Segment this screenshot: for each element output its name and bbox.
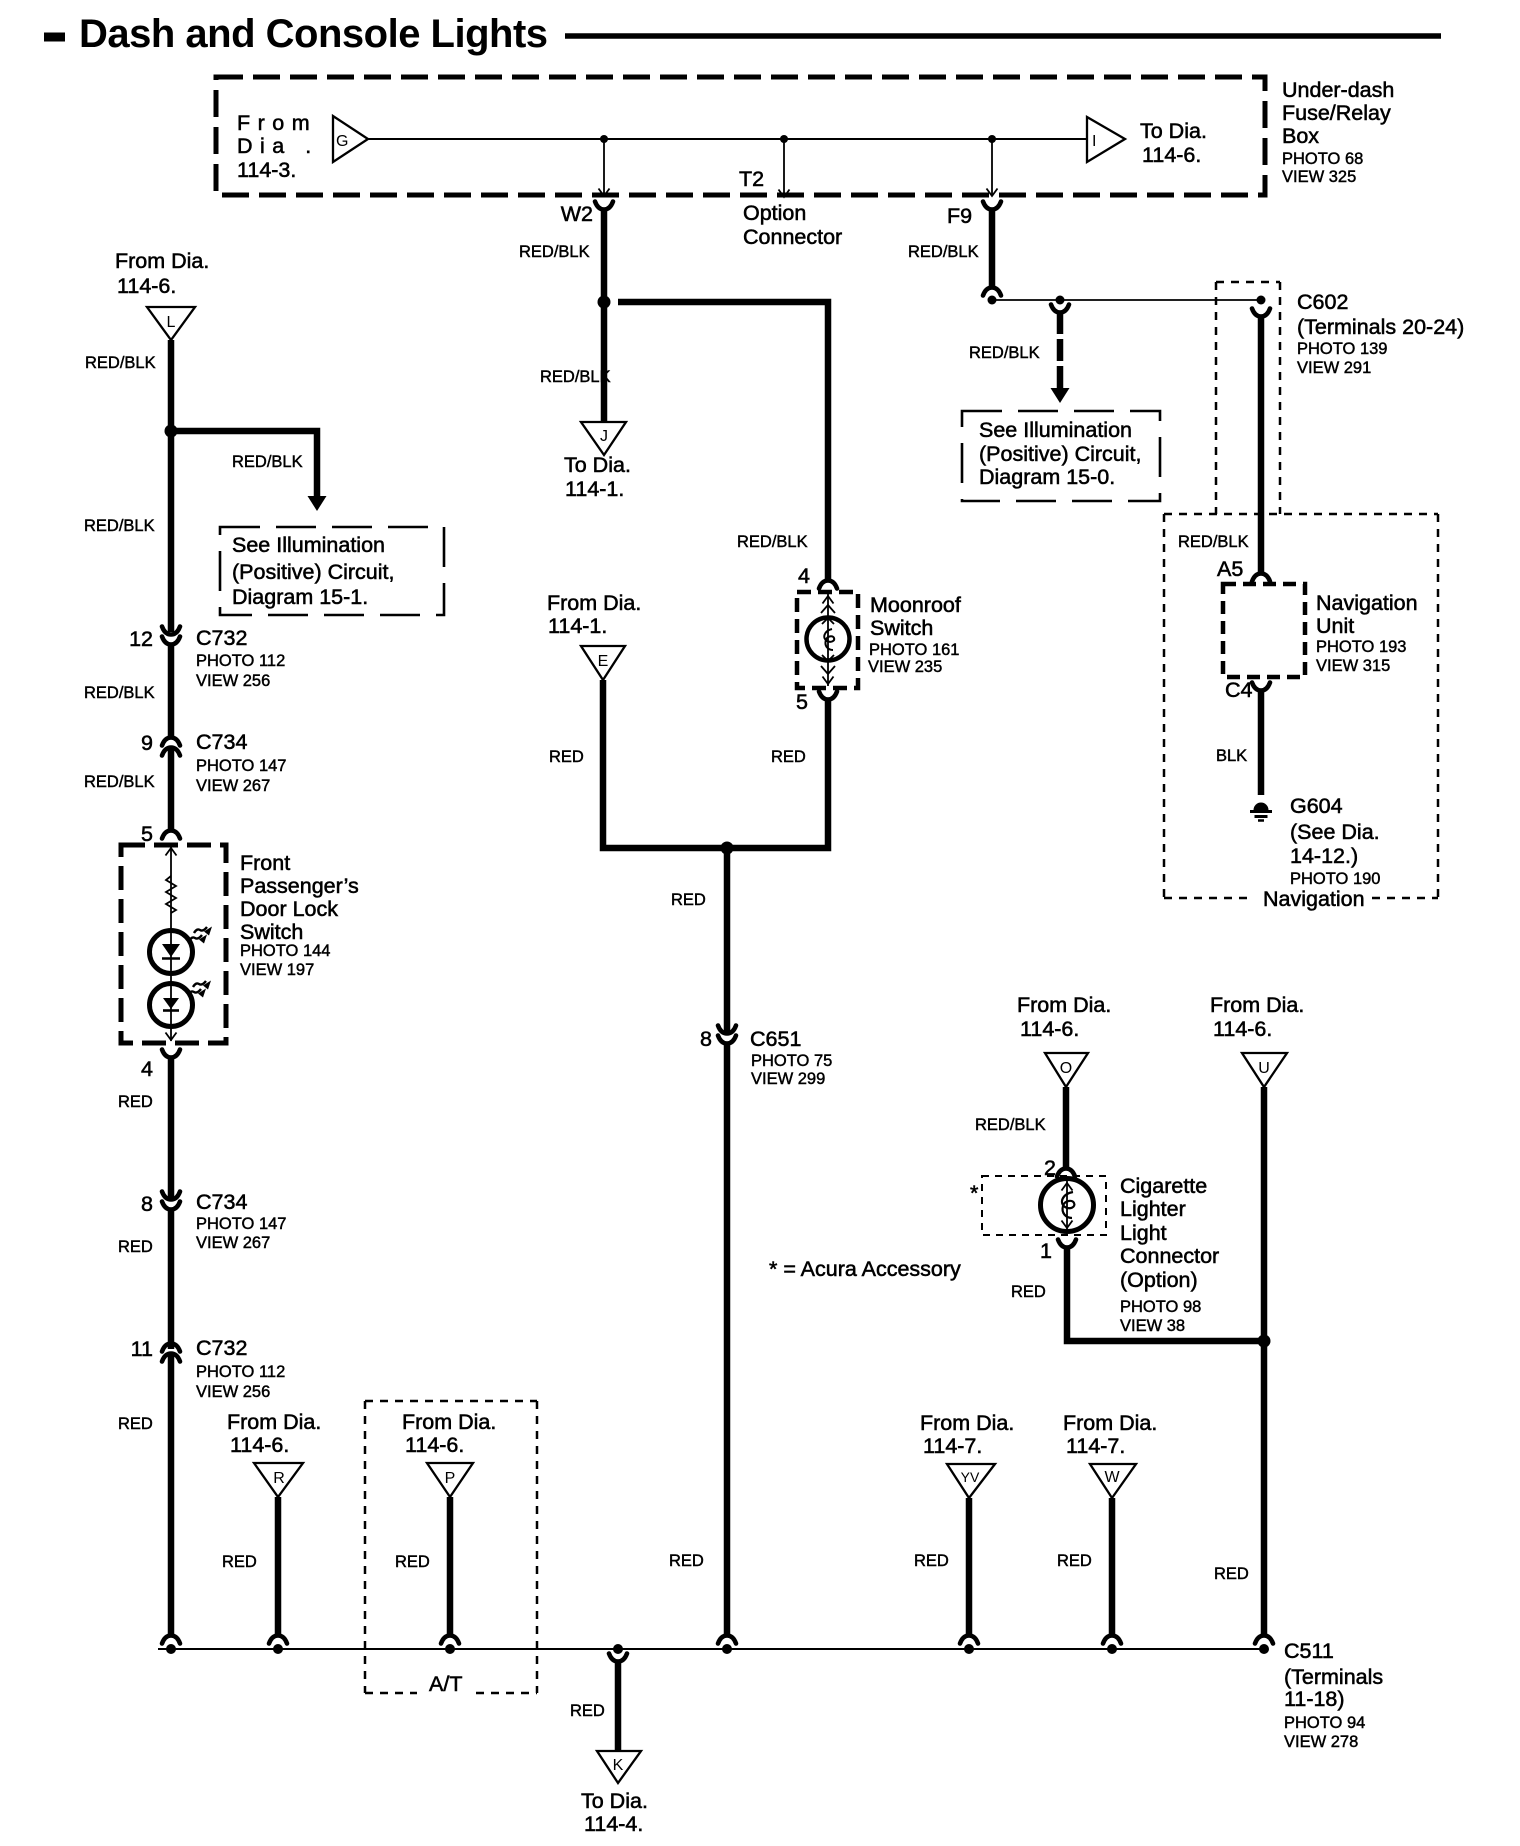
svg-text:Front: Front bbox=[240, 851, 290, 875]
wire: thin arrow down to F9 bbox=[987, 139, 998, 196]
A5 horn at navigation unit bbox=[1252, 574, 1270, 582]
svg-text:114-6.: 114-6. bbox=[1142, 143, 1201, 167]
svg-text:Lighter: Lighter bbox=[1120, 1197, 1186, 1221]
svg-text:RED: RED bbox=[1011, 1283, 1046, 1301]
node on bus bbox=[445, 1644, 455, 1654]
svg-text:Fuse/Relay: Fuse/Relay bbox=[1282, 101, 1391, 125]
connector arrow L bbox=[147, 307, 195, 340]
svg-text:From Dia.: From Dia. bbox=[547, 591, 641, 615]
wire O down to lighter bbox=[1063, 1087, 1070, 1169]
wire left column to C732 bbox=[168, 431, 175, 632]
svg-text:114-1.: 114-1. bbox=[565, 477, 624, 501]
wire W down to bus bbox=[1109, 1498, 1116, 1636]
connector arrow E bbox=[581, 646, 625, 680]
svg-text:Under-dash: Under-dash bbox=[1282, 78, 1394, 102]
front passenger's door lock switch box (dashed) bbox=[121, 845, 226, 1043]
wire F9 down bbox=[989, 209, 996, 288]
svg-text:PHOTO 161: PHOTO 161 bbox=[869, 641, 959, 659]
svg-text:5: 5 bbox=[796, 690, 808, 714]
label G604 (See Dia. 14-12.) bbox=[1290, 794, 1380, 888]
svg-text:1: 1 bbox=[1040, 1239, 1052, 1263]
svg-text:4: 4 bbox=[141, 1057, 153, 1081]
wire K down bbox=[615, 1661, 622, 1751]
heavy dashed arrow down bbox=[1057, 312, 1064, 388]
label To Dia. 114-4. bbox=[581, 1789, 648, 1836]
wire: thin arrow down to W2 bbox=[599, 139, 610, 196]
svg-text:RED/BLK: RED/BLK bbox=[232, 453, 303, 471]
wire: thin arrow down to T2 option connector bbox=[779, 139, 790, 197]
svg-text:Dia .: Dia . bbox=[237, 134, 319, 158]
svg-text:Option: Option bbox=[743, 201, 806, 225]
svg-text:VIEW 197: VIEW 197 bbox=[240, 961, 314, 979]
svg-text:RED: RED bbox=[771, 748, 806, 766]
svg-text:RED/BLK: RED/BLK bbox=[84, 684, 155, 702]
svg-text:(See Dia.: (See Dia. bbox=[1290, 820, 1380, 844]
K wire horn below bus bbox=[609, 1654, 627, 1662]
wire to C734 bbox=[168, 645, 175, 738]
wire C602 down to navigation unit bbox=[1258, 316, 1265, 574]
node center junction bbox=[721, 842, 734, 855]
connector C734 pin 9 bbox=[141, 730, 286, 795]
svg-text:114-6.: 114-6. bbox=[117, 274, 176, 298]
label From Dia. 114-1. (E) bbox=[547, 591, 641, 638]
wire down to C734 pin 8 bbox=[168, 1057, 175, 1198]
svg-text:RED: RED bbox=[222, 1553, 257, 1571]
svg-text:K: K bbox=[613, 1757, 624, 1774]
svg-text:YV: YV bbox=[961, 1469, 980, 1485]
connector arrow YV bbox=[947, 1464, 995, 1498]
wire center down to C651 bbox=[724, 848, 731, 1032]
svg-text:(Positive) Circuit,: (Positive) Circuit, bbox=[979, 442, 1141, 466]
svg-text:C732: C732 bbox=[196, 626, 247, 650]
F9 wire horn top bbox=[983, 202, 1001, 210]
node at C602 top bbox=[1257, 296, 1266, 305]
svg-text:A5: A5 bbox=[1217, 557, 1243, 581]
svg-text:To Dia.: To Dia. bbox=[581, 1789, 648, 1813]
svg-text:W: W bbox=[1104, 1469, 1120, 1486]
connector arrow K bbox=[597, 1751, 641, 1783]
svg-text:RED: RED bbox=[395, 1553, 430, 1571]
svg-text:PHOTO 94: PHOTO 94 bbox=[1284, 1714, 1365, 1732]
svg-text:RED: RED bbox=[118, 1093, 153, 1111]
connector arrow R bbox=[254, 1463, 303, 1497]
node at W2 drop bbox=[600, 135, 608, 143]
C4 horn bbox=[1252, 683, 1270, 691]
terminal 4 horn bbox=[141, 1050, 180, 1082]
svg-text:114-1.: 114-1. bbox=[548, 614, 607, 638]
see illumination 15-1 box (dashed) bbox=[220, 527, 444, 615]
label Navigation Unit bbox=[1316, 591, 1418, 675]
bus terminal horn (center wire) bbox=[718, 1636, 736, 1644]
svg-text:PHOTO 112: PHOTO 112 bbox=[196, 1363, 285, 1381]
label From Dia. 114-6. (L) bbox=[115, 249, 209, 298]
svg-text:See Illumination: See Illumination bbox=[232, 533, 385, 557]
terminal 2 horn bbox=[1044, 1156, 1075, 1180]
svg-text:114-6.: 114-6. bbox=[1020, 1017, 1079, 1041]
node on bus bbox=[166, 1644, 176, 1654]
svg-text:Connector: Connector bbox=[1120, 1244, 1219, 1268]
svg-text:PHOTO 144: PHOTO 144 bbox=[240, 942, 330, 960]
navigation outer dashed box bbox=[1164, 514, 1438, 898]
svg-text:W2: W2 bbox=[561, 202, 593, 226]
horn for dashed arrow bbox=[1051, 305, 1069, 313]
moonroof switch box (dashed) bbox=[797, 592, 858, 688]
svg-text:114-7.: 114-7. bbox=[923, 1434, 982, 1458]
svg-text:VIEW 299: VIEW 299 bbox=[751, 1070, 825, 1088]
svg-text:PHOTO 112: PHOTO 112 bbox=[196, 652, 285, 670]
svg-text:From Dia.: From Dia. bbox=[1210, 993, 1304, 1017]
svg-text:9: 9 bbox=[141, 731, 153, 755]
node on bus bbox=[964, 1644, 974, 1654]
svg-text:PHOTO 139: PHOTO 139 bbox=[1297, 340, 1387, 358]
connector C732 pin 11 bbox=[131, 1336, 286, 1401]
svg-text:Moonroof: Moonroof bbox=[870, 593, 961, 617]
connector arrow U bbox=[1242, 1053, 1287, 1087]
F9 wire horn bottom bbox=[983, 288, 1001, 296]
node on bus bbox=[1259, 1644, 1269, 1654]
svg-text:* = Acura Accessory: * = Acura Accessory bbox=[769, 1257, 961, 1281]
bus terminal horn (U wire) bbox=[1255, 1636, 1273, 1644]
svg-text:F9: F9 bbox=[947, 204, 972, 228]
svg-text:RED/BLK: RED/BLK bbox=[84, 773, 155, 791]
node W2 junction bbox=[598, 296, 611, 309]
bottom bus wire bbox=[158, 1648, 1264, 1650]
cigarette lighter dashed box bbox=[982, 1176, 1106, 1235]
node junction on left column bbox=[165, 425, 178, 438]
svg-text:RED: RED bbox=[1214, 1565, 1249, 1583]
svg-text:BLK: BLK bbox=[1216, 747, 1247, 765]
label Under-dash Fuse/Relay Box bbox=[1282, 78, 1394, 186]
connector arrow W bbox=[1090, 1464, 1136, 1498]
svg-text:*: * bbox=[970, 1181, 979, 1205]
wire W2 down bbox=[601, 209, 608, 305]
node on bus bbox=[1107, 1644, 1117, 1654]
title: Dash and Console Lights bbox=[44, 33, 65, 42]
svg-text:I: I bbox=[1092, 133, 1096, 150]
solid arrowhead bbox=[308, 496, 327, 511]
node at T2 drop bbox=[780, 135, 788, 143]
svg-text:8: 8 bbox=[141, 1192, 153, 1216]
moonroof terminal 4 horn bbox=[798, 564, 837, 589]
svg-text:C734: C734 bbox=[196, 730, 247, 754]
wire W2 junction down to J bbox=[601, 302, 608, 422]
wire YV down to bus bbox=[966, 1498, 973, 1636]
label Moonroof Switch bbox=[868, 593, 961, 676]
label From Dia. 114-6. (U) bbox=[1210, 993, 1304, 1041]
lighter bulb bbox=[1041, 1179, 1094, 1232]
svg-text:P: P bbox=[445, 1470, 456, 1487]
resistor (internal) bbox=[166, 876, 176, 913]
bus terminal horn (P wire) bbox=[441, 1636, 459, 1644]
under-dash fuse/relay box (dashed) bbox=[216, 77, 1265, 195]
svg-text:From: From bbox=[237, 111, 317, 135]
svg-text:C732: C732 bbox=[196, 1336, 247, 1360]
svg-text:Navigation: Navigation bbox=[1263, 887, 1365, 911]
wire P down to bus bbox=[447, 1497, 454, 1636]
wire E down to junction bbox=[603, 680, 727, 848]
svg-text:U: U bbox=[1258, 1060, 1270, 1077]
svg-text:A/T: A/T bbox=[429, 1672, 462, 1696]
svg-text:J: J bbox=[600, 428, 608, 445]
moonroof switch internals bbox=[807, 594, 850, 686]
svg-text:From Dia.: From Dia. bbox=[115, 249, 209, 273]
moonroof terminal 5 horn bbox=[796, 690, 837, 714]
LED 1 bbox=[150, 927, 213, 974]
svg-text:RED: RED bbox=[118, 1415, 153, 1433]
svg-text:RED: RED bbox=[914, 1552, 949, 1570]
svg-text:(Positive) Circuit,: (Positive) Circuit, bbox=[232, 560, 394, 584]
label Cigarette Lighter Light Connector (Option) bbox=[1120, 1174, 1219, 1335]
svg-text:PHOTO 75: PHOTO 75 bbox=[751, 1052, 832, 1070]
connector arrow I bbox=[1087, 117, 1125, 162]
svg-text:4: 4 bbox=[798, 564, 810, 588]
label To Dia. 114-6. bbox=[1140, 119, 1207, 167]
svg-text:8: 8 bbox=[700, 1027, 712, 1051]
svg-text:VIEW 235: VIEW 235 bbox=[868, 658, 942, 676]
svg-text:114-4.: 114-4. bbox=[584, 1812, 643, 1836]
svg-text:VIEW 325: VIEW 325 bbox=[1282, 168, 1356, 186]
W2 wire horn bbox=[595, 202, 613, 210]
svg-text:See Illumination: See Illumination bbox=[979, 418, 1132, 442]
see illumination 15-0 box (dashed) bbox=[962, 411, 1160, 501]
svg-text:5: 5 bbox=[141, 822, 153, 846]
svg-text:Door Lock: Door Lock bbox=[240, 897, 338, 921]
svg-text:C651: C651 bbox=[750, 1027, 801, 1051]
A/T dashed box bbox=[365, 1401, 537, 1693]
svg-text:11: 11 bbox=[131, 1337, 153, 1361]
svg-text:RED/BLK: RED/BLK bbox=[969, 344, 1040, 362]
svg-text:Navigation: Navigation bbox=[1316, 591, 1418, 615]
svg-text:C734: C734 bbox=[196, 1190, 247, 1214]
svg-text:(Terminals 20-24): (Terminals 20-24) bbox=[1297, 315, 1464, 339]
svg-text:RED: RED bbox=[549, 748, 584, 766]
svg-text:VIEW 256: VIEW 256 bbox=[196, 672, 270, 690]
wire R down to bus bbox=[275, 1497, 282, 1636]
terminal 5 horn bbox=[141, 822, 180, 846]
svg-text:O: O bbox=[1060, 1060, 1072, 1077]
svg-text:RED: RED bbox=[118, 1238, 153, 1256]
connector C732 pin 12 bbox=[129, 626, 285, 690]
thin wire from F9 to C602 bbox=[992, 299, 1261, 301]
label T2 Option Connector bbox=[739, 167, 842, 249]
label From Dia. 114-6. (O) bbox=[1017, 993, 1111, 1041]
svg-text:114-3.: 114-3. bbox=[237, 158, 296, 182]
svg-text:14-12.): 14-12.) bbox=[1290, 844, 1358, 868]
svg-text:VIEW 291: VIEW 291 bbox=[1297, 359, 1371, 377]
svg-text:RED: RED bbox=[669, 1552, 704, 1570]
svg-text:From Dia.: From Dia. bbox=[1017, 993, 1111, 1017]
svg-text:Switch: Switch bbox=[870, 616, 933, 640]
svg-text:114-6.: 114-6. bbox=[405, 1433, 464, 1457]
svg-text:RED/BLK: RED/BLK bbox=[737, 533, 808, 551]
svg-text:From Dia.: From Dia. bbox=[227, 1410, 321, 1434]
C602 wire horn bbox=[1252, 309, 1270, 317]
svg-text:Box: Box bbox=[1282, 124, 1319, 148]
svg-text:G: G bbox=[336, 133, 348, 150]
svg-text:G604: G604 bbox=[1290, 794, 1343, 818]
svg-text:VIEW 278: VIEW 278 bbox=[1284, 1733, 1358, 1751]
connector arrow O bbox=[1045, 1053, 1088, 1087]
svg-text:VIEW 38: VIEW 38 bbox=[1120, 1317, 1185, 1335]
wire U down to bus bbox=[1261, 1087, 1268, 1636]
svg-text:PHOTO 193: PHOTO 193 bbox=[1316, 638, 1406, 656]
svg-text:(Option): (Option) bbox=[1120, 1268, 1198, 1292]
svg-text:Dash and Console Lights: Dash and Console Lights bbox=[79, 12, 548, 56]
svg-text:PHOTO 190: PHOTO 190 bbox=[1290, 870, 1380, 888]
connector arrow G bbox=[333, 116, 368, 162]
svg-text:12: 12 bbox=[129, 627, 153, 651]
svg-text:VIEW 315: VIEW 315 bbox=[1316, 657, 1390, 675]
svg-text:11-18): 11-18) bbox=[1284, 1687, 1345, 1711]
svg-text:L: L bbox=[167, 314, 176, 331]
svg-text:To Dia.: To Dia. bbox=[1140, 119, 1207, 143]
svg-text:VIEW 267: VIEW 267 bbox=[196, 1234, 270, 1252]
svg-text:RED/BLK: RED/BLK bbox=[85, 354, 156, 372]
ground G604 bbox=[1250, 803, 1272, 821]
label From Dia. 114-3. bbox=[237, 111, 319, 182]
wire C4 down to ground bbox=[1258, 690, 1265, 795]
svg-text:From Dia.: From Dia. bbox=[920, 1411, 1014, 1435]
connector C651 pin 8 bbox=[700, 1026, 832, 1089]
wire branch to moonroof switch bbox=[618, 302, 828, 581]
label Front Passenger's Door Lock Switch bbox=[240, 851, 359, 979]
svg-text:Cigarette: Cigarette bbox=[1120, 1174, 1207, 1198]
bus terminal horn (left wire) bbox=[162, 1636, 180, 1644]
C602 dashed box bbox=[1216, 282, 1280, 514]
svg-text:RED: RED bbox=[671, 891, 706, 909]
svg-text:PHOTO 68: PHOTO 68 bbox=[1282, 150, 1363, 168]
svg-text:R: R bbox=[273, 1470, 285, 1487]
svg-text:Unit: Unit bbox=[1316, 614, 1354, 638]
label From Dia. 114-6. (R) bbox=[227, 1410, 321, 1457]
terminal 1 horn bbox=[1040, 1239, 1076, 1263]
connector arrow P bbox=[427, 1463, 473, 1497]
svg-text:(Terminals: (Terminals bbox=[1284, 1665, 1383, 1689]
wire center down to bus bbox=[724, 1044, 731, 1636]
svg-text:PHOTO 98: PHOTO 98 bbox=[1120, 1298, 1201, 1316]
node U/lighter junction bbox=[1258, 1335, 1271, 1348]
node below F9 bbox=[988, 296, 997, 305]
svg-text:RED/BLK: RED/BLK bbox=[540, 368, 611, 386]
svg-text:PHOTO 147: PHOTO 147 bbox=[196, 1215, 286, 1233]
svg-text:114-7.: 114-7. bbox=[1066, 1434, 1125, 1458]
wire to door lock switch bbox=[168, 749, 175, 831]
svg-text:Passenger’s: Passenger’s bbox=[240, 874, 359, 898]
connector arrow J bbox=[581, 422, 626, 455]
title rule bbox=[565, 33, 1441, 39]
node on bus bbox=[273, 1644, 283, 1654]
svg-text:C4: C4 bbox=[1225, 678, 1253, 702]
connector C734 pin 8 bbox=[141, 1190, 286, 1252]
svg-text:RED/BLK: RED/BLK bbox=[975, 1116, 1046, 1134]
svg-text:RED/BLK: RED/BLK bbox=[519, 243, 590, 261]
wire lighter down to U column bbox=[1067, 1247, 1264, 1341]
svg-text:Light: Light bbox=[1120, 1221, 1167, 1245]
svg-text:C602: C602 bbox=[1297, 290, 1348, 314]
svg-text:From Dia.: From Dia. bbox=[402, 1410, 496, 1434]
svg-text:RED/BLK: RED/BLK bbox=[908, 243, 979, 261]
navigation unit box (dashed) bbox=[1223, 584, 1305, 677]
svg-text:114-6.: 114-6. bbox=[1213, 1017, 1272, 1041]
svg-text:RED: RED bbox=[1057, 1552, 1092, 1570]
label From Dia. 114-6. (P) bbox=[402, 1410, 496, 1457]
svg-text:114-6.: 114-6. bbox=[230, 1433, 289, 1457]
bus terminal horn (R wire) bbox=[269, 1636, 287, 1644]
svg-text:VIEW 256: VIEW 256 bbox=[196, 1383, 270, 1401]
wire branch to see-illumination arrow bbox=[171, 431, 317, 497]
wire moonroof down and to junction bbox=[727, 699, 828, 848]
node for see-illumination drop bbox=[1056, 296, 1065, 305]
svg-text:C511: C511 bbox=[1284, 1639, 1334, 1663]
svg-text:RED: RED bbox=[570, 1702, 605, 1720]
node on bus bbox=[722, 1644, 732, 1654]
wire down to C732 pin 11 bbox=[168, 1210, 175, 1349]
wire: thin bus inside fuse box bbox=[368, 138, 1087, 140]
svg-text:Diagram 15-1.: Diagram 15-1. bbox=[232, 585, 368, 609]
label From Dia. 114-7. (YV) bbox=[920, 1411, 1014, 1458]
svg-text:Connector: Connector bbox=[743, 225, 842, 249]
svg-text:RED/BLK: RED/BLK bbox=[84, 517, 155, 535]
label C602 (Terminals 20-24) bbox=[1297, 290, 1464, 377]
svg-text:VIEW 267: VIEW 267 bbox=[196, 777, 270, 795]
label To Dia. 114-1. bbox=[564, 453, 631, 501]
LED 2 bbox=[150, 981, 212, 1027]
svg-text:PHOTO 147: PHOTO 147 bbox=[196, 757, 286, 775]
svg-text:T2: T2 bbox=[739, 167, 764, 191]
svg-text:Switch: Switch bbox=[240, 920, 303, 944]
wire down to bus bbox=[168, 1355, 175, 1636]
label From Dia. 114-7. (W) bbox=[1063, 1411, 1157, 1458]
svg-text:From Dia.: From Dia. bbox=[1063, 1411, 1157, 1435]
label C511 (Terminals 11-18) bbox=[1284, 1639, 1383, 1751]
svg-text:E: E bbox=[598, 653, 609, 670]
switch internal thin line bbox=[170, 847, 172, 1041]
svg-text:Diagram 15-0.: Diagram 15-0. bbox=[979, 465, 1115, 489]
bus terminal horn (YV wire) bbox=[960, 1636, 978, 1644]
svg-text:To Dia.: To Dia. bbox=[564, 453, 631, 477]
bus terminal horn (W wire) bbox=[1103, 1636, 1121, 1644]
node at F9 drop bbox=[988, 135, 996, 143]
node K drop bbox=[613, 1644, 623, 1654]
wire L down to junction bbox=[168, 340, 175, 434]
svg-text:RED/BLK: RED/BLK bbox=[1178, 533, 1249, 551]
